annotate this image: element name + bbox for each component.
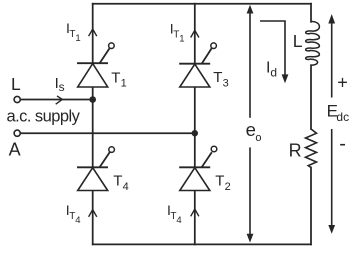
label I_d — [266, 60, 277, 80]
svg-text:T: T — [113, 172, 122, 189]
label T1 — [111, 70, 126, 90]
svg-text:1: 1 — [75, 33, 80, 44]
svg-text:a.c. supply: a.c. supply — [7, 107, 81, 125]
svg-text:s: s — [59, 80, 65, 94]
wire L terminal lead — [20, 99, 92, 101]
arrow I_T1 left chevron — [89, 29, 97, 36]
svg-text:e: e — [246, 119, 256, 140]
thyristor T1 — [77, 43, 114, 87]
thyristor T2 — [179, 146, 217, 190]
svg-text:4: 4 — [75, 215, 80, 226]
terminal L circle — [14, 96, 20, 102]
svg-text:L: L — [11, 74, 21, 94]
thyristor T4 — [77, 147, 114, 191]
wire load branch upper — [310, 4, 312, 22]
arrow I_s chevron — [56, 96, 63, 104]
wire load branch lower — [310, 168, 312, 245]
svg-text:3: 3 — [223, 78, 229, 90]
label I_s — [55, 75, 65, 94]
label I_T4 right — [167, 202, 182, 226]
svg-text:L: L — [293, 31, 303, 51]
svg-text:R: R — [289, 140, 302, 160]
svg-text:d: d — [270, 65, 277, 79]
svg-text:4: 4 — [176, 215, 181, 226]
resistor R zigzag — [306, 129, 317, 168]
svg-text:4: 4 — [123, 181, 129, 193]
svg-text:dc: dc — [336, 110, 349, 124]
wire left bridge branch — [92, 4, 94, 245]
label T2 — [215, 172, 230, 193]
svg-text:1: 1 — [121, 78, 127, 90]
arrow I_T1 right chevron — [191, 30, 199, 37]
label I_T1 right — [170, 21, 185, 45]
svg-text:1: 1 — [179, 34, 184, 45]
arrow I_d hook — [260, 21, 288, 83]
svg-text:2: 2 — [225, 181, 231, 193]
terminal A circle — [14, 130, 20, 136]
arrow E_dc measure line — [328, 14, 335, 234]
label T3 — [213, 69, 228, 90]
svg-text:o: o — [255, 132, 261, 144]
svg-text:T: T — [111, 70, 120, 87]
svg-text:-: - — [339, 133, 346, 155]
svg-text:T: T — [215, 172, 224, 189]
inductor L coil — [306, 22, 320, 66]
arrow e_o measure line — [247, 5, 254, 243]
label I_T4 left — [66, 202, 81, 226]
label T4 — [113, 172, 128, 193]
label E_dc — [327, 102, 349, 125]
label e_o — [246, 119, 262, 144]
svg-text:A: A — [9, 140, 21, 160]
wire top bus — [93, 3, 311, 5]
wire A terminal lead — [20, 132, 195, 134]
wire right bridge branch — [194, 4, 196, 245]
label I_T1 left — [66, 20, 81, 44]
wire bottom bus — [93, 243, 311, 245]
arrow I_T4 left chevron — [89, 210, 97, 217]
arrow I_T4 right chevron — [191, 209, 199, 216]
thyristor T3 — [179, 43, 216, 87]
node junction dot left (L to bridge) — [89, 96, 96, 103]
svg-text:T: T — [213, 69, 222, 86]
svg-text:+: + — [337, 73, 348, 93]
wire load branch middle — [310, 65, 312, 129]
node junction dot right (A to bridge) — [192, 130, 198, 136]
